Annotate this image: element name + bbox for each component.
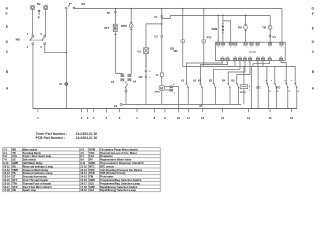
svg-text:TP: TP bbox=[107, 12, 111, 15]
svg-text:HWR: HWR bbox=[12, 161, 18, 165]
legend table bbox=[3, 147, 160, 192]
svg-text:e: e bbox=[291, 80, 293, 82]
svg-text:7-8: 7-8 bbox=[3, 158, 7, 162]
main bottom bus bbox=[33, 108, 297, 110]
svg-text:2: 2 bbox=[81, 116, 83, 120]
part number text bbox=[36, 132, 98, 140]
grid row letters right edge bbox=[312, 7, 315, 91]
svg-text:6: 6 bbox=[277, 91, 279, 93]
svg-text:M: M bbox=[160, 86, 163, 90]
thermostat switch DT2 bbox=[276, 66, 300, 108]
svg-text:15-16: 15-16 bbox=[80, 178, 87, 182]
svg-text:PIL: PIL bbox=[12, 171, 16, 175]
PCB bottom pins bbox=[221, 58, 283, 61]
wire pcb pin to contact B2 bbox=[214, 61, 240, 83]
svg-text:C3: C3 bbox=[154, 36, 158, 39]
svg-text:DWD: DWD bbox=[89, 161, 95, 165]
svg-text:NTC sensor: NTC sensor bbox=[100, 164, 114, 168]
svg-text:1-2: 1-2 bbox=[3, 147, 7, 151]
indicator lamp IH bbox=[59, 82, 68, 86]
cam contact 5 bbox=[236, 84, 239, 105]
svg-text:11-12: 11-12 bbox=[80, 164, 87, 168]
wire pcb pin to bus bbox=[257, 61, 259, 66]
svg-text:RV: RV bbox=[89, 158, 93, 162]
svg-text:HFT: HFT bbox=[12, 178, 17, 182]
svg-text:2: 2 bbox=[27, 46, 29, 49]
svg-text:DPM: DPM bbox=[155, 92, 160, 94]
svg-text:F: F bbox=[6, 12, 8, 16]
svg-text:C1: C1 bbox=[154, 16, 158, 19]
svg-text:15-16: 15-16 bbox=[3, 181, 10, 185]
wire drop to bus bbox=[257, 66, 259, 108]
svg-text:DPM: DPM bbox=[89, 147, 95, 151]
svg-text:6: 6 bbox=[40, 46, 42, 49]
svg-text:7: 7 bbox=[136, 116, 138, 120]
rail2 feed pin bbox=[217, 15, 219, 43]
node on rail for pump column bbox=[130, 8, 132, 10]
svg-text:SW6: SW6 bbox=[89, 178, 95, 182]
svg-text:GO: GO bbox=[139, 76, 143, 79]
svg-text:AS: AS bbox=[137, 51, 141, 54]
wire pcb pin to contact B5 bbox=[237, 61, 250, 83]
svg-text:TFH: TFH bbox=[12, 181, 17, 185]
svg-text:MS: MS bbox=[12, 147, 16, 151]
svg-text:5-6: 5-6 bbox=[3, 154, 7, 158]
svg-text:15: 15 bbox=[269, 116, 273, 120]
svg-text:B2: B2 bbox=[209, 80, 213, 83]
svg-text:Flowmeter: Flowmeter bbox=[100, 154, 113, 158]
svg-text:C: C bbox=[6, 50, 9, 54]
svg-text:A: A bbox=[312, 87, 315, 91]
svg-text:13: 13 bbox=[221, 116, 225, 120]
fill valve FM bbox=[238, 15, 248, 43]
svg-text:RIL: RIL bbox=[12, 164, 17, 168]
second rail bbox=[170, 14, 270, 16]
anti-flood switch AS bbox=[137, 23, 162, 66]
svg-text:NTC: NTC bbox=[89, 164, 94, 168]
svg-text:A1: A1 bbox=[181, 80, 185, 83]
svg-text:18-19: 18-19 bbox=[80, 188, 87, 192]
svg-text:TOC: TOC bbox=[89, 151, 94, 155]
svg-text:G: G bbox=[6, 7, 9, 11]
top supply rail bbox=[75, 7, 282, 9]
svg-text:FLS: FLS bbox=[89, 154, 94, 158]
svg-text:IH: IH bbox=[59, 83, 62, 86]
svg-text:Circulation Pump Motor (wash): Circulation Pump Motor (wash) bbox=[100, 147, 138, 151]
wire pcb pin left drop bbox=[253, 61, 270, 66]
svg-text:A: A bbox=[6, 87, 9, 91]
svg-text:E: E bbox=[6, 25, 9, 29]
svg-text:Flow Through Heater: Flow Through Heater bbox=[23, 178, 48, 182]
grid row letters left edge bbox=[6, 7, 9, 91]
svg-text:8: 8 bbox=[154, 116, 156, 120]
svg-text:P: P bbox=[38, 16, 40, 20]
circulation pump motor DPM bbox=[121, 8, 133, 74]
timer terminal ticks and numbers bbox=[38, 109, 292, 113]
svg-text:14: 14 bbox=[247, 116, 251, 120]
svg-text:11: 11 bbox=[187, 116, 190, 120]
svg-text:B1: B1 bbox=[198, 80, 202, 83]
svg-text:PCB (Printed Circuit): PCB (Printed Circuit) bbox=[100, 171, 125, 175]
svg-text:1: 1 bbox=[149, 77, 151, 79]
PCB module box bbox=[216, 42, 286, 60]
svg-text:6: 6 bbox=[119, 116, 121, 120]
svg-text:Rapid/Energy Selection Lamp: Rapid/Energy Selection Lamp bbox=[100, 188, 136, 192]
svg-text:2: 2 bbox=[149, 71, 151, 73]
svg-text:GS: GS bbox=[81, 2, 85, 6]
svg-text:6: 6 bbox=[298, 91, 300, 93]
neutral bus upper bbox=[122, 103, 241, 105]
node on rail motor column bbox=[161, 8, 163, 10]
svg-text:HFT: HFT bbox=[104, 27, 109, 30]
svg-text:CSL: CSL bbox=[12, 154, 18, 158]
svg-text:5: 5 bbox=[289, 91, 291, 93]
svg-text:9-10: 9-10 bbox=[3, 161, 9, 165]
svg-text:G: G bbox=[312, 7, 315, 11]
wire pcb pin to bus bbox=[234, 61, 236, 66]
svg-text:Rinse aid Indicator Lamp: Rinse aid Indicator Lamp bbox=[23, 164, 54, 168]
svg-text:Spark stop: Spark stop bbox=[23, 188, 37, 192]
svg-text:1: 1 bbox=[27, 33, 29, 36]
svg-text:Rapid/Energy Selection Switch: Rapid/Energy Selection Switch bbox=[100, 185, 138, 189]
svg-text:16-17: 16-17 bbox=[80, 181, 87, 185]
svg-text:Cycle / Door Seal Lamp: Cycle / Door Seal Lamp bbox=[23, 154, 52, 158]
svg-text:TB: TB bbox=[12, 151, 16, 155]
svg-text:D: D bbox=[312, 40, 315, 44]
thermostat contact below connector bbox=[125, 81, 128, 104]
wire pcb pin to contact B4 bbox=[228, 61, 245, 83]
svg-text:2: 2 bbox=[249, 86, 251, 88]
svg-text:HPTS: HPTS bbox=[240, 92, 246, 94]
svg-text:Powered Wash Relay: Powered Wash Relay bbox=[23, 168, 49, 172]
svg-text:PTV: PTV bbox=[207, 36, 212, 39]
wire pcb pin to aux contact 1 bbox=[186, 61, 222, 83]
svg-text:SL6: SL6 bbox=[89, 181, 94, 185]
svg-text:12: 12 bbox=[201, 116, 205, 120]
svg-text:16-17: 16-17 bbox=[3, 185, 10, 189]
svg-text:MS: MS bbox=[16, 37, 20, 41]
svg-text:Terminal Block: Terminal Block bbox=[23, 151, 42, 155]
svg-text:Programme/Reg. Selection Switc: Programme/Reg. Selection Switch bbox=[100, 178, 142, 182]
svg-text:Flow meter: Flow meter bbox=[100, 175, 113, 179]
svg-text:13-14: 13-14 bbox=[3, 175, 10, 179]
svg-text:SB: SB bbox=[12, 188, 16, 192]
svg-text:Main switch: Main switch bbox=[23, 147, 38, 151]
svg-text:DT1: DT1 bbox=[256, 88, 261, 90]
svg-text:Thermal Fuse of Heater: Thermal Fuse of Heater bbox=[23, 181, 51, 185]
main switch MS (double pole) bbox=[16, 33, 46, 49]
connector C3 bbox=[154, 36, 162, 39]
vent solenoid PTV bbox=[202, 8, 212, 67]
svg-text:12-13: 12-13 bbox=[3, 171, 10, 175]
svg-text:17-18: 17-18 bbox=[80, 185, 87, 189]
svg-text:2-3: 2-3 bbox=[80, 147, 84, 151]
svg-text:Powered Indicator Lamp: Powered Indicator Lamp bbox=[23, 171, 53, 175]
cam contact 1 bbox=[185, 84, 188, 105]
svg-text:1: 1 bbox=[174, 92, 176, 94]
capacitor C4 bbox=[269, 35, 276, 39]
svg-text:PCB: PCB bbox=[89, 171, 95, 175]
motor connector pins bbox=[164, 83, 178, 108]
svg-text:PCB: PCB bbox=[250, 50, 256, 54]
svg-text:5: 5 bbox=[269, 91, 271, 93]
PCB top pins bbox=[217, 42, 283, 45]
svg-text:B5: B5 bbox=[231, 80, 235, 83]
wire TB right down to MS bbox=[45, 9, 47, 35]
svg-text:PRS: PRS bbox=[89, 168, 95, 172]
svg-text:13-14: 13-14 bbox=[80, 171, 87, 175]
heater relay box HPTS bbox=[240, 66, 251, 104]
thermostat switch DT1 bbox=[256, 66, 279, 108]
svg-text:FM: FM bbox=[89, 175, 93, 179]
junction live node bbox=[66, 52, 68, 54]
svg-text:Programme/Reg. Selection Lamp: Programme/Reg. Selection Lamp bbox=[100, 181, 140, 185]
svg-text:B: B bbox=[312, 70, 315, 74]
svg-text:3-4: 3-4 bbox=[3, 151, 7, 155]
thermal protector TP bbox=[107, 11, 117, 15]
wash motor M bbox=[155, 85, 165, 104]
svg-text:SS: SS bbox=[12, 158, 16, 162]
svg-text:TM: TM bbox=[262, 26, 266, 29]
terminal block TB bbox=[31, 2, 48, 9]
svg-text:Thermoelectric Dispenser Unit+: Thermoelectric Dispenser Unit+NTC bbox=[100, 161, 144, 165]
svg-text:4: 4 bbox=[93, 116, 95, 120]
wire pcb pin to DT1 bbox=[262, 61, 264, 66]
cam contact 2 bbox=[199, 84, 202, 105]
svg-text:10-11: 10-11 bbox=[3, 164, 10, 168]
svg-text:16: 16 bbox=[290, 116, 294, 120]
svg-text:8-9: 8-9 bbox=[80, 158, 84, 162]
svg-text:F: F bbox=[312, 12, 314, 16]
svg-text:DT2: DT2 bbox=[276, 88, 281, 90]
wire TB left down to MS bbox=[32, 9, 34, 35]
svg-text:Security thermostat: Security thermostat bbox=[23, 175, 47, 179]
svg-text:TB: TB bbox=[37, 2, 42, 6]
svg-text:1: 1 bbox=[37, 116, 39, 120]
svg-text:ST: ST bbox=[12, 175, 16, 179]
svg-text:Anti-Flooding Pressure Sw. Dev: Anti-Flooding Pressure Sw. Device bbox=[100, 168, 143, 172]
pcb pin number labels bbox=[221, 61, 264, 63]
svg-text:5: 5 bbox=[40, 33, 42, 36]
thermal limiter TL bbox=[155, 73, 163, 77]
wire MS pole1 down to bottom bus bbox=[32, 45, 34, 109]
collector bus under PCB bbox=[183, 65, 295, 67]
svg-text:Regeneration Water Valve: Regeneration Water Valve bbox=[100, 158, 132, 162]
terminal A3 bbox=[114, 103, 122, 108]
svg-text:DPM: DPM bbox=[121, 25, 127, 28]
svg-text:16-0364-01 00: 16-0364-01 00 bbox=[76, 136, 98, 140]
connector socket pins A5 A4 lower row bbox=[121, 79, 131, 81]
svg-text:3: 3 bbox=[87, 116, 89, 120]
svg-text:14-15: 14-15 bbox=[3, 178, 10, 182]
timer motor TM bbox=[262, 15, 272, 42]
svg-text:9: 9 bbox=[164, 116, 166, 120]
rail1 drop to PCB bbox=[281, 8, 283, 42]
svg-text:PCB Part Number :: PCB Part Number : bbox=[36, 136, 66, 140]
node on rail for heater column bbox=[115, 8, 117, 10]
wire heater to connector A5 bbox=[115, 72, 122, 75]
svg-text:1: 1 bbox=[249, 90, 251, 92]
svg-text:D: D bbox=[6, 40, 9, 44]
svg-text:B4: B4 bbox=[222, 80, 226, 83]
svg-text:SL8: SL8 bbox=[89, 188, 94, 192]
svg-text:A2: A2 bbox=[193, 80, 197, 83]
wire pcb pin to DT2 bbox=[281, 61, 286, 66]
svg-text:Half Wash Relay: Half Wash Relay bbox=[23, 161, 43, 165]
capacitor C1 bbox=[154, 16, 163, 19]
svg-text:E: E bbox=[312, 26, 315, 30]
svg-text:12-13: 12-13 bbox=[80, 168, 87, 172]
wire pcb pin to aux contact 2 bbox=[200, 61, 227, 83]
PCB pin number marks bbox=[217, 47, 282, 57]
motor feed wire with step to second rail bbox=[161, 8, 163, 85]
svg-text:TL: TL bbox=[155, 74, 159, 77]
svg-text:4-5: 4-5 bbox=[80, 151, 84, 155]
flow-through heater HFT bbox=[104, 24, 117, 34]
overflow device GO connector bbox=[139, 54, 152, 105]
svg-text:4: 4 bbox=[173, 83, 175, 86]
svg-text:9-11: 9-11 bbox=[80, 161, 86, 165]
wire drop to bus bbox=[251, 66, 253, 108]
supply plug P bbox=[38, 10, 41, 20]
drain solenoid DQ bbox=[170, 8, 185, 67]
svg-text:180: 180 bbox=[173, 50, 178, 53]
svg-text:WNS: WNS bbox=[212, 28, 218, 31]
cam contact labels bbox=[181, 80, 235, 83]
door switch GS bbox=[65, 2, 85, 9]
svg-text:A4: A4 bbox=[133, 80, 137, 83]
connector pin A5 bbox=[111, 74, 124, 84]
live vertical rail bbox=[65, 9, 67, 109]
svg-text:C: C bbox=[312, 50, 315, 54]
cam contact 3 bbox=[213, 84, 216, 105]
svg-text:Over Flow Micro Switch: Over Flow Micro Switch bbox=[23, 185, 52, 189]
wire MS pole2 to live node bbox=[45, 45, 67, 53]
svg-text:5: 5 bbox=[106, 116, 108, 120]
svg-text:A3: A3 bbox=[114, 105, 118, 108]
svg-text:17-18: 17-18 bbox=[3, 188, 10, 192]
svg-text:A5: A5 bbox=[111, 81, 115, 84]
svg-text:e: e bbox=[271, 80, 273, 82]
svg-text:FM: FM bbox=[238, 26, 242, 29]
cam contact 4 bbox=[227, 84, 230, 105]
svg-text:B: B bbox=[6, 70, 9, 74]
svg-text:Thermal Cut-out of Circ. Motor: Thermal Cut-out of Circ. Motor bbox=[100, 151, 137, 155]
svg-text:14-15: 14-15 bbox=[80, 175, 87, 179]
svg-text:C4: C4 bbox=[272, 36, 276, 39]
svg-text:PWR: PWR bbox=[12, 168, 18, 172]
svg-text:SW8: SW8 bbox=[89, 185, 95, 189]
svg-text:Salt switch: Salt switch bbox=[23, 158, 37, 162]
connector pin A4 bbox=[128, 74, 137, 83]
water softener valve WNS bbox=[212, 15, 231, 43]
svg-text:6-7: 6-7 bbox=[80, 154, 84, 158]
wire heater column bbox=[114, 8, 116, 73]
svg-text:OFS: OFS bbox=[12, 185, 18, 189]
svg-text:10: 10 bbox=[177, 116, 181, 120]
svg-text:11-12: 11-12 bbox=[3, 168, 10, 172]
